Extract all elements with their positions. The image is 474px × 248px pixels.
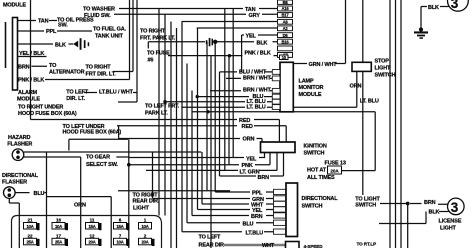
svg-text:LIGHT: LIGHT <box>440 226 457 232</box>
svg-text:25A: 25A <box>55 240 62 245</box>
svg-text:PPL: PPL <box>252 191 263 197</box>
svg-text:3: 3 <box>451 0 459 11</box>
svg-text:15A: 15A <box>117 224 124 229</box>
svg-text:SW.: SW. <box>58 23 68 29</box>
svg-text:10A: 10A <box>27 224 34 229</box>
svg-text:ORN: ORN <box>243 136 255 142</box>
svg-text:TO RIGHT: TO RIGHT <box>140 28 166 34</box>
svg-text:TAN: TAN <box>38 19 49 25</box>
svg-text:REAR DIR: REAR DIR <box>199 242 225 248</box>
svg-text:BLU: BLU <box>243 222 254 228</box>
svg-text:FRT. PARK LT.: FRT. PARK LT. <box>140 35 176 41</box>
svg-text:22: 22 <box>28 233 33 238</box>
svg-text:LICENSE: LICENSE <box>439 218 462 224</box>
svg-text:YEL: YEL <box>246 34 257 40</box>
svg-text:4-SPEED: 4-SPEED <box>304 244 324 248</box>
svg-text:MODULE: MODULE <box>17 96 40 102</box>
svg-text:WHT: WHT <box>262 243 275 248</box>
svg-text:TO LEFT FRT.: TO LEFT FRT. <box>145 103 180 109</box>
svg-text:11: 11 <box>90 217 95 222</box>
svg-text:LT.BLU: LT.BLU <box>246 230 264 236</box>
svg-text:10A: 10A <box>142 224 149 229</box>
svg-text:TO WASHER: TO WASHER <box>83 7 115 13</box>
svg-text:TO RIGHT: TO RIGHT <box>86 65 112 71</box>
svg-text:ORN: ORN <box>350 84 362 90</box>
svg-text:LT. BLU: LT. BLU <box>360 99 379 105</box>
svg-text:MONITOR: MONITOR <box>299 85 324 91</box>
svg-text:PARK LT.: PARK LT. <box>145 111 168 117</box>
svg-text:TO RT.LP: TO RT.LP <box>357 241 377 246</box>
svg-text:20A: 20A <box>89 240 96 245</box>
svg-text:STOP: STOP <box>375 59 390 65</box>
svg-text:ALL TIMES: ALL TIMES <box>307 175 335 181</box>
svg-text:LT. BLU: LT. BLU <box>247 104 266 110</box>
svg-text:HOOD FUSE BOX (60A): HOOD FUSE BOX (60A) <box>63 130 122 136</box>
svg-text:TO GEAR: TO GEAR <box>86 154 110 160</box>
svg-text:SWITCH: SWITCH <box>302 204 323 210</box>
svg-text:TO RIGHT UNDER: TO RIGHT UNDER <box>18 104 63 110</box>
svg-text:SWITCH: SWITCH <box>355 202 376 208</box>
svg-text:BRN: BRN <box>258 175 270 181</box>
svg-text:21: 21 <box>28 217 33 222</box>
svg-text:PNK / BLK: PNK / BLK <box>18 77 44 83</box>
svg-text:16: 16 <box>56 217 61 222</box>
svg-text:HAZARD: HAZARD <box>8 135 30 141</box>
svg-text:SELECT SW.: SELECT SW. <box>86 162 118 168</box>
svg-text:BRN: BRN <box>251 214 263 220</box>
svg-text:12: 12 <box>90 233 95 238</box>
svg-text:LIGHT: LIGHT <box>375 66 392 72</box>
svg-text:SWITCH: SWITCH <box>304 150 325 156</box>
svg-text:TO LEFT: TO LEFT <box>66 90 89 96</box>
svg-text:ORN: ORN <box>74 203 86 209</box>
svg-text:MODULE: MODULE <box>3 3 26 9</box>
svg-text:MODULE: MODULE <box>299 92 322 98</box>
svg-text:SWITCH: SWITCH <box>375 73 396 79</box>
svg-text:TO RIGHT: TO RIGHT <box>133 193 159 199</box>
svg-text:10A: 10A <box>55 224 62 229</box>
svg-text:LAMP: LAMP <box>299 78 314 84</box>
svg-text:B17: B17 <box>282 13 290 18</box>
svg-text:BLK: BLK <box>428 5 439 11</box>
svg-text:15A: 15A <box>89 224 96 229</box>
svg-text:YEL / BLK: YEL / BLK <box>19 51 44 57</box>
svg-text:PPL: PPL <box>46 29 57 35</box>
svg-text:HOT AT: HOT AT <box>307 168 327 174</box>
svg-text:YEL: YEL <box>246 157 257 163</box>
svg-text:HOOD FUSE BOX (60A): HOOD FUSE BOX (60A) <box>18 111 77 117</box>
svg-text:DIRECTIONAL: DIRECTIONAL <box>302 196 339 202</box>
svg-text:17: 17 <box>56 233 61 238</box>
svg-text:ALARM: ALARM <box>18 90 38 96</box>
svg-text:10A: 10A <box>117 240 124 245</box>
svg-text:RED: RED <box>242 124 253 130</box>
svg-text:BLK: BLK <box>55 42 66 48</box>
svg-text:LT.BLU / WHT: LT.BLU / WHT <box>99 89 134 95</box>
svg-text:FRT DIR. LT.: FRT DIR. LT. <box>86 71 117 77</box>
svg-text:A16: A16 <box>282 6 290 11</box>
svg-text:TO LEFT: TO LEFT <box>199 235 222 241</box>
svg-text:GRY: GRY <box>249 13 261 19</box>
svg-text:LIGHT: LIGHT <box>133 205 150 211</box>
svg-text:FLASHER: FLASHER <box>7 142 32 148</box>
svg-text:GRN / WHT: GRN / WHT <box>309 62 338 68</box>
svg-text:TO: TO <box>49 63 57 69</box>
svg-text:FLASHER: FLASHER <box>2 179 27 185</box>
svg-text:DIRECTIONAL: DIRECTIONAL <box>2 173 39 179</box>
svg-text:20A: 20A <box>142 240 149 245</box>
svg-text:25A: 25A <box>27 240 34 245</box>
svg-text:#6: #6 <box>148 57 154 63</box>
svg-text:BLU: BLU <box>34 191 45 197</box>
svg-text:PNK / BLK: PNK / BLK <box>245 50 271 56</box>
svg-text:TAN: TAN <box>245 7 256 13</box>
svg-text:BRN / WHT: BRN / WHT <box>243 88 271 94</box>
svg-text:3: 3 <box>451 200 459 215</box>
svg-text:TO FUSE: TO FUSE <box>147 51 170 57</box>
svg-text:20A: 20A <box>330 168 339 173</box>
svg-text:BRN: BRN <box>424 200 436 206</box>
svg-text:DIR. LT.: DIR. LT. <box>66 96 85 102</box>
svg-text:TANK UNIT: TANK UNIT <box>95 33 124 39</box>
svg-text:BRN: BRN <box>18 64 30 70</box>
svg-text:IGNITION: IGNITION <box>304 143 327 149</box>
svg-text:BRN / WHT: BRN / WHT <box>243 76 271 82</box>
svg-text:B16: B16 <box>282 39 290 44</box>
svg-text:FUSE 13: FUSE 13 <box>325 161 346 167</box>
svg-text:REAR DIR.: REAR DIR. <box>133 199 160 205</box>
svg-text:BLK: BLK <box>257 40 268 46</box>
svg-text:ALTERNATOR: ALTERNATOR <box>49 70 85 76</box>
svg-text:TO FUEL GA.: TO FUEL GA. <box>93 26 127 32</box>
svg-text:PNK: PNK <box>242 163 253 169</box>
svg-text:BLK: BLK <box>429 209 440 215</box>
